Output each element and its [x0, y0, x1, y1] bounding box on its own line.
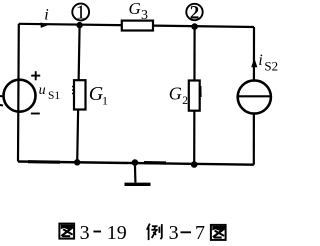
svg-text:2: 2 [190, 2, 200, 23]
svg-text:7: 7 [195, 222, 205, 244]
svg-text:S1: S1 [48, 90, 60, 102]
svg-text:3: 3 [80, 222, 90, 244]
svg-text:u: u [39, 83, 46, 98]
svg-text:G: G [129, 0, 141, 18]
svg-text:3: 3 [141, 8, 148, 23]
svg-text:1: 1 [102, 93, 108, 107]
svg-text:3: 3 [169, 222, 179, 244]
svg-text:i: i [44, 7, 48, 24]
svg-text:S2: S2 [264, 59, 278, 74]
svg-text:i: i [258, 52, 262, 69]
svg-text:2: 2 [182, 95, 188, 107]
svg-text:G: G [169, 83, 182, 103]
svg-text:19: 19 [107, 222, 127, 244]
svg-text:1: 1 [76, 1, 86, 23]
